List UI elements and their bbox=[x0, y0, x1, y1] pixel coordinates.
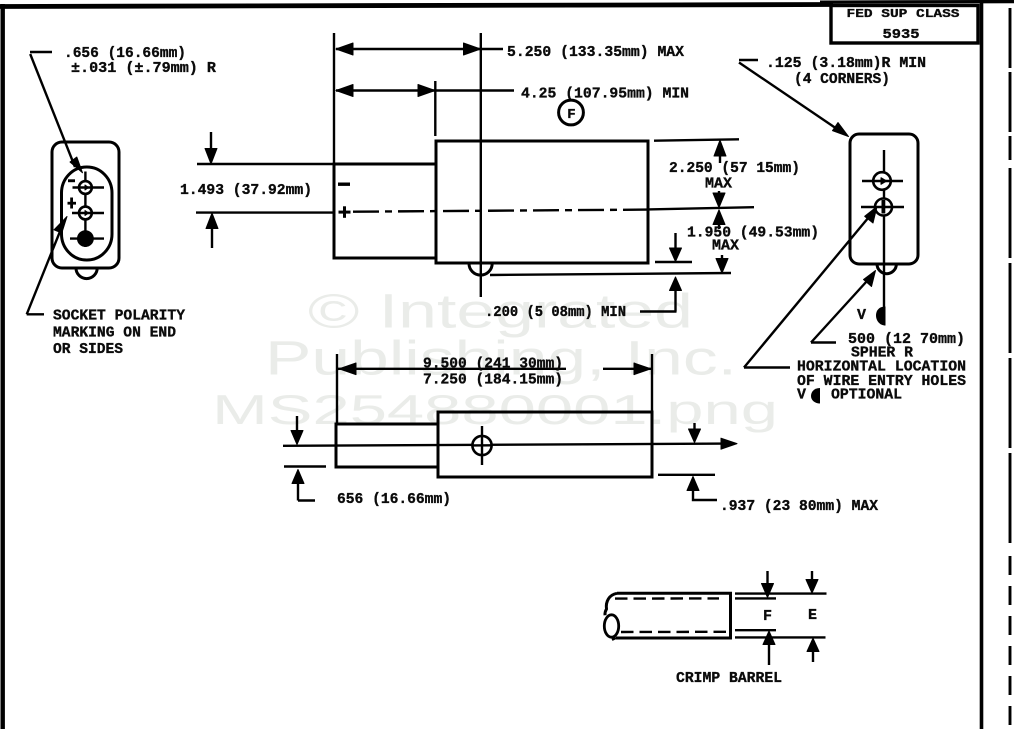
watermark line 1 bbox=[308, 286, 693, 339]
extension line x481 bbox=[480, 33, 482, 297]
right view centerline symbol bbox=[857, 307, 886, 326]
right view shell bbox=[850, 134, 918, 264]
extension line x337 bottom bbox=[336, 354, 338, 424]
svg-text:E: E bbox=[808, 607, 817, 624]
right view crosshair vertical bbox=[883, 150, 885, 324]
svg-text:656 (16.66mm): 656 (16.66mm) bbox=[337, 491, 451, 508]
bump bottom line bbox=[490, 273, 731, 275]
svg-text:CRIMP BARREL: CRIMP BARREL bbox=[676, 670, 782, 687]
left view socket crosshair vertical bbox=[84, 172, 86, 248]
side view body rect bbox=[436, 141, 648, 263]
svg-text:1.493 (37.92mm): 1.493 (37.92mm) bbox=[180, 182, 312, 199]
bottom view hole circle bbox=[472, 426, 492, 465]
svg-text:V: V bbox=[797, 387, 806, 404]
svg-text:OPTIONAL: OPTIONAL bbox=[831, 387, 902, 404]
bottom view plug rect bbox=[336, 424, 438, 467]
extension line top of body right bbox=[654, 139, 739, 140]
svg-text:SOCKET POLARITY: SOCKET POLARITY bbox=[53, 308, 185, 325]
side view centerline dash-dot bbox=[353, 210, 648, 212]
side view bottom bump bbox=[469, 264, 492, 276]
side view plug rect bbox=[334, 164, 436, 258]
dimension 4.25 MIN bbox=[336, 85, 689, 103]
border right bbox=[980, 2, 984, 729]
left view bottom polarization tab bbox=[76, 268, 97, 279]
leader .125 corners bbox=[739, 55, 926, 137]
left view plus marking bbox=[68, 198, 77, 209]
right view hole 2 bbox=[861, 199, 904, 216]
extension line x652 bottom bbox=[651, 354, 653, 412]
border right outer broken line bbox=[1009, 8, 1012, 729]
svg-text:5935: 5935 bbox=[883, 27, 920, 43]
side view minus mark bbox=[338, 183, 350, 186]
dimension F bbox=[762, 571, 776, 665]
svg-text:7.250 (184.15mm): 7.250 (184.15mm) bbox=[423, 372, 563, 389]
barrel extension lines bbox=[735, 594, 827, 638]
svg-text:MARKING ON END: MARKING ON END bbox=[53, 325, 176, 342]
left view outer shell bbox=[52, 142, 119, 268]
extension line x334 bbox=[333, 33, 335, 164]
leader .656 radius label bbox=[30, 45, 216, 173]
svg-text:.937 (23 80mm) MAX: .937 (23 80mm) MAX bbox=[720, 498, 878, 515]
svg-text:.200 (5 08mm) MIN: .200 (5 08mm) MIN bbox=[485, 304, 626, 321]
centerline extension right bbox=[648, 207, 754, 209]
left view socket 2 bbox=[72, 207, 104, 220]
svg-text:OR SIDES: OR SIDES bbox=[53, 341, 123, 358]
leader socket polarity label bbox=[27, 217, 185, 359]
border top bbox=[0, 2, 1014, 7]
dimension .200 MIN bbox=[485, 233, 682, 321]
svg-text:(4 CORNERS): (4 CORNERS) bbox=[794, 71, 890, 88]
svg-text:MAX: MAX bbox=[712, 238, 739, 255]
crimp barrel body bbox=[604, 593, 730, 640]
side view plus mark bbox=[339, 206, 351, 218]
dimension .937 right bbox=[658, 423, 878, 515]
extension line body bottom right bbox=[655, 261, 692, 263]
svg-text:FED SUP CLASS: FED SUP CLASS bbox=[847, 7, 961, 21]
crimp barrel label bbox=[676, 670, 782, 687]
svg-text:1.950 (49.53mm): 1.950 (49.53mm) bbox=[687, 225, 819, 242]
watermark line 3 bbox=[212, 386, 778, 433]
svg-text:±.031 (±.79mm) R: ±.031 (±.79mm) R bbox=[71, 60, 216, 77]
bottom view body rect bbox=[438, 412, 652, 477]
watermark line 2 bbox=[265, 332, 737, 386]
dimension 1.493 bbox=[180, 132, 334, 248]
dimension 5.250 MAX bbox=[336, 43, 684, 61]
left view inner cavity stadium bbox=[62, 167, 113, 260]
svg-text:.125 (3.18mm)R MIN: .125 (3.18mm)R MIN bbox=[766, 55, 926, 72]
right view hole 1 bbox=[862, 172, 903, 190]
border left bbox=[1, 4, 5, 729]
svg-text:F: F bbox=[763, 608, 772, 625]
left view socket 3 filled bbox=[70, 231, 104, 246]
svg-text:2.250 (57 15mm): 2.250 (57 15mm) bbox=[669, 160, 800, 177]
svg-text:4.25 (107.95mm) MIN: 4.25 (107.95mm) MIN bbox=[521, 86, 689, 103]
bottom view centerline bbox=[283, 438, 737, 449]
dimension 656 left bbox=[284, 416, 451, 508]
svg-text:V: V bbox=[857, 307, 866, 324]
dimension E bbox=[806, 571, 819, 662]
svg-text:F: F bbox=[567, 107, 575, 123]
dimension 2.250 MAX bbox=[669, 140, 800, 208]
dimension 1.950 MAX bbox=[687, 210, 819, 273]
leader 500 spher r bbox=[811, 271, 965, 362]
left view minus marking bbox=[68, 179, 75, 182]
crimp barrel bore dashed bottom bbox=[621, 631, 726, 634]
leader horizontal location bbox=[744, 207, 966, 404]
svg-text:MAX: MAX bbox=[705, 176, 732, 193]
svg-text:9.500 (241 30mm): 9.500 (241 30mm) bbox=[423, 355, 563, 372]
right view bottom tab bbox=[877, 264, 896, 274]
datum circle F bbox=[559, 100, 584, 125]
title box FED SUP CLASS 5935 bbox=[831, 6, 978, 44]
crimp barrel bore dashed top bbox=[615, 597, 719, 600]
svg-text:5.250 (133.35mm) MAX: 5.250 (133.35mm) MAX bbox=[507, 44, 684, 61]
left view socket 1 bbox=[73, 181, 105, 194]
dimension 9.500 / 7.250 bbox=[338, 355, 652, 388]
extension line x435 bbox=[434, 81, 436, 136]
